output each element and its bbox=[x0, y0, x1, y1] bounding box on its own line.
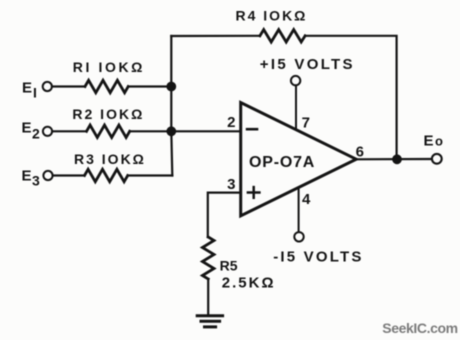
wire pin 4 to -15V terminal bbox=[298, 188, 300, 232]
-15V supply terminal bbox=[273, 232, 363, 265]
resistor R1 bbox=[85, 80, 128, 92]
node E3 bbox=[22, 167, 53, 188]
svg-text:-I5 VOLTS: -I5 VOLTS bbox=[273, 248, 363, 265]
svg-text:OP-O7A: OP-O7A bbox=[249, 154, 315, 171]
wire summing bus vertical bbox=[171, 36, 172, 176]
svg-text:6: 6 bbox=[356, 144, 364, 161]
label R5 value bbox=[220, 257, 276, 291]
wire E1 to R1 bbox=[52, 85, 85, 87]
svg-text:E2: E2 bbox=[22, 120, 41, 142]
svg-text:2.5KΩ: 2.5KΩ bbox=[222, 275, 276, 292]
junction output node bbox=[392, 154, 402, 164]
junction R1 bus bbox=[166, 82, 176, 92]
resistor R2 bbox=[87, 125, 130, 137]
wire E2 to R2 bbox=[52, 130, 86, 132]
svg-text:+I5 VOLTS: +I5 VOLTS bbox=[260, 56, 355, 73]
wire R3 to summing bus corner bbox=[128, 174, 173, 176]
svg-text:SeekIC.com: SeekIC.com bbox=[382, 320, 457, 336]
wire op-amp output pin 6 to node Eo bbox=[356, 158, 432, 161]
svg-text:R5: R5 bbox=[220, 257, 238, 273]
+15V supply terminal bbox=[260, 56, 355, 86]
svg-text:Eo: Eo bbox=[424, 132, 444, 149]
resistor R4 bbox=[260, 30, 305, 42]
wire bus to inverting input pin 2 bbox=[171, 130, 240, 132]
svg-text:RI IOKΩ: RI IOKΩ bbox=[73, 59, 145, 75]
svg-text:R3 IOKΩ: R3 IOKΩ bbox=[74, 151, 146, 167]
wire feedback top from bus to R4 bbox=[171, 35, 260, 37]
wire R2 to summing bus bbox=[130, 130, 172, 132]
wire R5 to ground bbox=[207, 279, 209, 314]
node Eo bbox=[424, 132, 444, 163]
svg-text:4: 4 bbox=[302, 191, 311, 208]
wire R1 to summing bus bbox=[128, 85, 171, 87]
svg-text:2: 2 bbox=[227, 114, 235, 131]
svg-text:3: 3 bbox=[227, 176, 235, 193]
wire E3 to R3 bbox=[53, 174, 85, 176]
svg-text:7: 7 bbox=[302, 114, 310, 131]
svg-text:E3: E3 bbox=[22, 167, 41, 188]
wire pin 3 to R5 bbox=[208, 193, 241, 237]
resistor R3 bbox=[85, 169, 128, 181]
node E1 bbox=[22, 79, 52, 100]
junction R2 bus bbox=[166, 126, 176, 136]
resistor R5 bbox=[202, 237, 214, 279]
ground bbox=[197, 316, 222, 327]
svg-text:R2 IOKΩ: R2 IOKΩ bbox=[72, 106, 144, 122]
op-amp U1 OP-07A bbox=[241, 103, 357, 216]
wire pin 7 to +15V terminal bbox=[295, 86, 297, 130]
svg-text:EI: EI bbox=[22, 79, 37, 100]
node E2 bbox=[22, 120, 53, 142]
wire R4 to right vertical bbox=[305, 36, 397, 160]
svg-text:R4 IOKΩ: R4 IOKΩ bbox=[236, 7, 308, 23]
